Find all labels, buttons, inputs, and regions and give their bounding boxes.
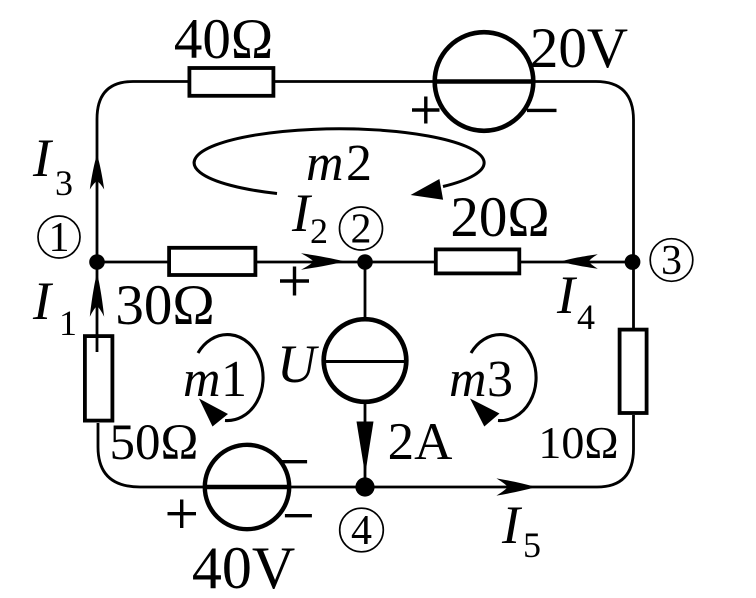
wire: node 1 up left side and top-left corner to resistor 40Ω <box>97 82 190 263</box>
svg-text:1: 1 <box>221 351 247 408</box>
svg-text:40Ω: 40Ω <box>174 8 273 71</box>
svg-text:1: 1 <box>49 215 70 261</box>
circled node number 3 <box>650 238 693 284</box>
svg-text:4: 4 <box>577 297 595 337</box>
resistor 30Ω <box>169 248 255 275</box>
wire: node 2 down to source U <box>364 262 367 322</box>
svg-text:20Ω: 20Ω <box>450 186 549 249</box>
svg-text:m: m <box>306 135 344 192</box>
node 2 dot <box>357 254 373 270</box>
plus polarity mark of U <box>280 267 309 296</box>
svg-text:10Ω: 10Ω <box>538 417 618 468</box>
svg-text:3: 3 <box>661 238 682 284</box>
svg-text:3: 3 <box>55 163 73 203</box>
svg-text:I: I <box>32 271 54 331</box>
svg-text:5: 5 <box>523 525 541 565</box>
wire: middle bus from node1 to node3 <box>97 261 634 264</box>
node 3 dot <box>625 254 641 270</box>
svg-text:2A: 2A <box>388 413 453 471</box>
current arrow I5 <box>496 478 536 495</box>
resistor 10Ω <box>620 330 647 413</box>
current source arrow 2A <box>357 422 374 478</box>
svg-text:2: 2 <box>346 135 372 192</box>
svg-text:m: m <box>183 351 221 408</box>
svg-text:I: I <box>501 495 523 555</box>
current arrow I2 <box>301 253 345 269</box>
svg-text:1: 1 <box>59 303 77 343</box>
resistor 20Ω <box>436 249 520 273</box>
mesh loop m3 <box>449 335 536 427</box>
circled node number 2 <box>340 207 383 253</box>
wire: node 3 down to resistor 10Ω <box>632 262 635 332</box>
wire stub at top of resistor 50Ω <box>96 334 99 352</box>
svg-text:I: I <box>556 265 578 325</box>
current arrow I3 <box>90 155 104 190</box>
voltage source 40V <box>168 445 312 529</box>
svg-text:U: U <box>277 334 319 394</box>
node 4 dot <box>355 477 374 496</box>
circled node number 4 <box>340 508 384 554</box>
svg-text:4: 4 <box>351 508 372 554</box>
wire: source U down to node 4 <box>364 400 367 487</box>
svg-text:20V: 20V <box>530 17 628 80</box>
svg-text:30Ω: 30Ω <box>115 274 214 337</box>
current arrow I4 <box>561 254 598 268</box>
svg-text:2: 2 <box>310 211 328 251</box>
svg-text:2: 2 <box>351 207 372 253</box>
svg-text:3: 3 <box>487 351 513 408</box>
resistor 50Ω <box>85 336 113 421</box>
svg-text:40V: 40V <box>192 535 295 598</box>
circled node number 1 <box>38 215 80 261</box>
current arrow I1 <box>90 273 104 317</box>
resistor 40Ω <box>189 68 273 96</box>
wire: bottom bus with lower-left and lower-right corners <box>98 415 634 487</box>
voltage source 20V <box>412 32 557 131</box>
svg-text:50Ω: 50Ω <box>110 415 199 471</box>
node 1 dot <box>89 254 105 270</box>
wire: resistor 40Ω through 20V source, top-right corner, down to node 3 <box>273 82 634 263</box>
voltage source U <box>324 319 407 402</box>
mesh loop m2 <box>194 129 484 200</box>
svg-text:m: m <box>449 351 487 408</box>
wire: node 1 down to resistor 50Ω <box>96 262 99 336</box>
mesh loop m1 <box>183 335 263 427</box>
svg-text:I: I <box>32 128 54 188</box>
